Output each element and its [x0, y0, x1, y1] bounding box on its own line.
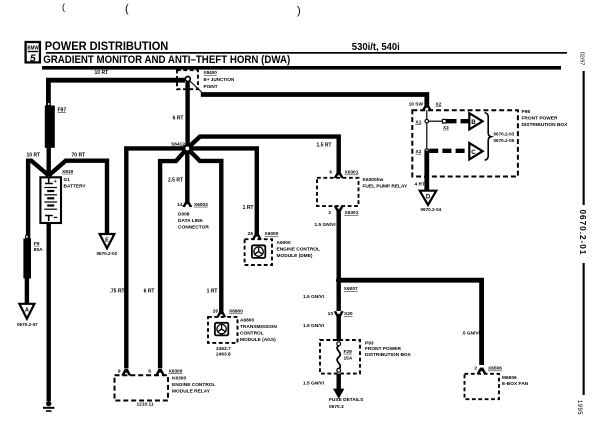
svg-text:M6506: M6506 — [502, 375, 517, 381]
svg-text:14: 14 — [177, 202, 183, 208]
svg-text:6 RT: 6 RT — [144, 288, 155, 294]
svg-text:1.5 GN/VI: 1.5 GN/VI — [303, 380, 325, 386]
svg-text:P93: P93 — [365, 341, 374, 347]
svg-text:X6800: X6800 — [229, 309, 243, 315]
svg-text:(: ( — [62, 2, 65, 12]
svg-text:1.5 GN/VI: 1.5 GN/VI — [303, 323, 325, 329]
svg-text:ENGINE CONTROL: ENGINE CONTROL — [277, 247, 321, 253]
svg-text:10 RT: 10 RT — [95, 70, 109, 76]
svg-text:9: 9 — [118, 368, 121, 374]
svg-text:K6300hw: K6300hw — [363, 177, 384, 183]
svg-text:10: 10 — [328, 311, 334, 317]
svg-text:X6007: X6007 — [344, 286, 358, 292]
svg-text:X6002: X6002 — [194, 202, 208, 208]
svg-text:): ) — [297, 5, 301, 17]
svg-text:POINT: POINT — [204, 84, 218, 89]
svg-text:G1: G1 — [64, 177, 71, 183]
svg-text:70 RT: 70 RT — [72, 152, 86, 158]
svg-text:P98: P98 — [522, 109, 531, 115]
svg-text:A6000: A6000 — [277, 240, 291, 246]
svg-text:X6301: X6301 — [345, 170, 359, 176]
svg-text:MODULE RELAY: MODULE RELAY — [172, 388, 211, 394]
svg-text:MODULE (DME): MODULE (DME) — [277, 253, 313, 259]
svg-text:80A: 80A — [34, 247, 43, 253]
svg-text:MODULE (AGS): MODULE (AGS) — [240, 337, 276, 343]
svg-text:BATTERY: BATTERY — [64, 184, 87, 190]
svg-text:K6300: K6300 — [172, 376, 186, 382]
svg-text:0670.2-01: 0670.2-01 — [578, 210, 587, 256]
svg-text:F97: F97 — [58, 108, 67, 114]
svg-text:POWER DISTRIBUTION: POWER DISTRIBUTION — [45, 39, 169, 53]
svg-text:1 RT: 1 RT — [207, 288, 218, 294]
svg-text:E: E — [105, 238, 109, 244]
svg-text:BMW: BMW — [27, 45, 39, 51]
svg-text:X20: X20 — [344, 311, 353, 317]
svg-text:S6412: S6412 — [171, 141, 185, 147]
svg-text:0670.3: 0670.3 — [329, 404, 344, 410]
svg-text:26: 26 — [213, 309, 219, 315]
svg-text:TRANSMISSION: TRANSMISSION — [240, 324, 277, 330]
svg-text:X6301: X6301 — [345, 210, 359, 216]
svg-text:1.5 GN/VI: 1.5 GN/VI — [315, 222, 337, 228]
svg-text:CONNECTOR: CONNECTOR — [178, 224, 209, 230]
svg-text:FUSE DETAILS: FUSE DETAILS — [329, 397, 364, 403]
svg-text:15A: 15A — [344, 355, 353, 361]
svg-text:X8400: X8400 — [204, 70, 218, 75]
svg-text:4 RT: 4 RT — [415, 181, 425, 187]
svg-text:2463.8: 2463.8 — [216, 352, 231, 358]
svg-text:DISTRIBUTION BOX: DISTRIBUTION BOX — [522, 122, 569, 128]
svg-text:X6300: X6300 — [169, 368, 183, 374]
svg-text:0670.2-05: 0670.2-05 — [494, 138, 515, 143]
svg-text:C: C — [471, 149, 476, 156]
svg-text:FRONT POWER: FRONT POWER — [365, 346, 402, 352]
svg-text:GRADIENT MONITOR AND ANTI–THEF: GRADIENT MONITOR AND ANTI–THEFT HORN (DW… — [43, 54, 290, 66]
svg-text:2.5 RT: 2.5 RT — [168, 177, 183, 183]
svg-text:X3: X3 — [443, 125, 449, 130]
svg-text:0670.2-07: 0670.2-07 — [17, 322, 38, 327]
svg-text:B: B — [471, 119, 476, 126]
svg-text:.75 RT: .75 RT — [109, 288, 124, 294]
svg-text:0670.2-03: 0670.2-03 — [494, 131, 515, 136]
svg-text:530i/t, 540i: 530i/t, 540i — [352, 42, 400, 53]
svg-text:6: 6 — [148, 368, 151, 374]
svg-text:1.5 GN/VI: 1.5 GN/VI — [303, 294, 325, 300]
svg-text:.5 GN/VI: .5 GN/VI — [462, 331, 481, 337]
svg-text:02/97: 02/97 — [578, 52, 584, 66]
svg-text:D008: D008 — [178, 212, 190, 218]
svg-text:6: 6 — [329, 170, 332, 176]
svg-text:DATA LINK: DATA LINK — [178, 218, 203, 224]
svg-text:F29: F29 — [344, 349, 353, 355]
svg-text:2: 2 — [328, 210, 331, 216]
svg-text:A: A — [25, 307, 29, 313]
svg-text:(: ( — [125, 3, 129, 15]
svg-text:10 SW: 10 SW — [409, 101, 424, 107]
svg-text:ENGINE CONTROL: ENGINE CONTROL — [172, 382, 216, 388]
svg-text:B+ JUNCTION: B+ JUNCTION — [204, 77, 235, 82]
svg-text:FRONT POWER: FRONT POWER — [522, 115, 559, 121]
svg-text:X2: X2 — [436, 101, 442, 107]
svg-text:1210.11: 1210.11 — [137, 402, 154, 408]
svg-text:0670.2-04: 0670.2-04 — [421, 207, 442, 212]
svg-text:5: 5 — [30, 52, 36, 64]
svg-text:+: + — [54, 179, 57, 185]
svg-text:1 RT: 1 RT — [243, 205, 254, 211]
svg-text:A6800: A6800 — [240, 318, 254, 324]
svg-text:1995: 1995 — [576, 400, 582, 415]
svg-text:D: D — [426, 194, 431, 200]
svg-text:X819: X819 — [62, 169, 74, 175]
svg-text:CONTROL: CONTROL — [240, 331, 264, 337]
svg-text:X2: X2 — [416, 149, 422, 155]
svg-text:E-BOX FAN: E-BOX FAN — [502, 381, 529, 387]
svg-text:X6000: X6000 — [265, 231, 279, 237]
svg-text:X1: X1 — [416, 120, 422, 126]
svg-text:1.5 RT: 1.5 RT — [316, 143, 331, 149]
svg-text:F9: F9 — [34, 241, 40, 247]
svg-text:DISTRIBUTION BOX: DISTRIBUTION BOX — [365, 352, 412, 358]
svg-text:26: 26 — [248, 231, 254, 237]
svg-text:10 RT: 10 RT — [27, 152, 41, 158]
svg-text:0670.2-02: 0670.2-02 — [97, 251, 118, 256]
svg-text:6 RT: 6 RT — [173, 115, 184, 121]
svg-text:2463.7: 2463.7 — [216, 346, 231, 352]
svg-text:FUEL PUMP RELAY: FUEL PUMP RELAY — [363, 183, 408, 189]
svg-text:X6506: X6506 — [488, 366, 502, 372]
svg-text:2: 2 — [474, 366, 477, 372]
